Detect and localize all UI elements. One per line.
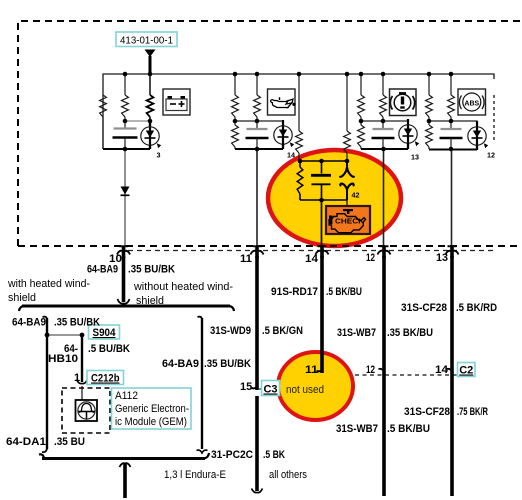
- svg-text:91S-RD17: 91S-RD17: [271, 286, 318, 298]
- svg-text:all others: all others: [269, 469, 307, 481]
- svg-text:with heated wind-: with heated wind-: [7, 278, 90, 290]
- svg-text:.75 BK/R: .75 BK/R: [457, 406, 488, 418]
- svg-text:shield: shield: [136, 295, 164, 307]
- svg-text:31S-CF28: 31S-CF28: [404, 406, 450, 418]
- svg-text:31S-WB7: 31S-WB7: [337, 327, 376, 339]
- svg-text:.5 BK/BU: .5 BK/BU: [326, 286, 362, 298]
- svg-text:1,3 l Endura-E: 1,3 l Endura-E: [164, 469, 226, 481]
- svg-text:ABS: ABS: [464, 101, 479, 108]
- svg-text:A112: A112: [115, 390, 138, 402]
- svg-text:.5 BK/GN: .5 BK/GN: [262, 325, 303, 337]
- svg-text:without heated wind-: without heated wind-: [133, 281, 233, 293]
- svg-text:31S-CF28: 31S-CF28: [401, 302, 447, 314]
- svg-text:64-BA9: 64-BA9: [162, 358, 199, 370]
- svg-text:shield: shield: [8, 292, 36, 304]
- svg-text:.35 BU/BK: .35 BU/BK: [128, 264, 175, 276]
- svg-text:31S-WB7: 31S-WB7: [336, 423, 378, 435]
- svg-text:C212b: C212b: [91, 373, 120, 385]
- svg-text:.5 BK/BU: .5 BK/BU: [387, 423, 430, 435]
- svg-text:12: 12: [366, 252, 375, 264]
- svg-text:14: 14: [305, 253, 319, 265]
- svg-text:14: 14: [287, 151, 295, 160]
- svg-text:14: 14: [435, 364, 449, 376]
- svg-text:.35 BU: .35 BU: [54, 436, 85, 448]
- svg-text:Generic Electron-: Generic Electron-: [115, 403, 189, 415]
- svg-text:.35 BU/BK: .35 BU/BK: [204, 358, 251, 370]
- svg-text:64-BA9: 64-BA9: [12, 317, 46, 329]
- svg-text:12: 12: [366, 364, 375, 376]
- svg-text:ic Module (GEM): ic Module (GEM): [115, 416, 187, 428]
- svg-text:.5 BU/BK: .5 BU/BK: [88, 343, 130, 355]
- svg-text:.5 BK: .5 BK: [263, 449, 285, 461]
- svg-text:12: 12: [487, 151, 495, 160]
- svg-text:not used: not used: [286, 384, 324, 396]
- svg-text:31-PC2C: 31-PC2C: [211, 449, 253, 461]
- svg-text:3: 3: [157, 151, 161, 160]
- svg-text:15: 15: [240, 381, 252, 393]
- svg-text:42: 42: [352, 191, 360, 200]
- svg-text:C3: C3: [263, 384, 277, 396]
- svg-text:11: 11: [305, 364, 318, 376]
- svg-text:HB10: HB10: [48, 353, 78, 365]
- svg-text:13: 13: [436, 252, 448, 264]
- svg-text:13: 13: [411, 153, 419, 162]
- svg-text:.35 BK/BU: .35 BK/BU: [387, 327, 433, 339]
- svg-text:1: 1: [74, 372, 80, 384]
- svg-text:64-BA9: 64-BA9: [87, 264, 118, 276]
- svg-text:.35 BU/BK: .35 BU/BK: [54, 317, 100, 329]
- svg-text:S904: S904: [93, 327, 117, 339]
- svg-text:C2: C2: [459, 365, 473, 377]
- svg-text:11: 11: [240, 253, 252, 265]
- svg-text:64-DA1: 64-DA1: [6, 436, 46, 448]
- svg-text:413-01-00-1: 413-01-00-1: [120, 35, 173, 47]
- svg-text:31S-WD9: 31S-WD9: [210, 325, 251, 337]
- svg-text:CHECK: CHECK: [335, 217, 365, 226]
- svg-text:.5 BK/RD: .5 BK/RD: [456, 302, 497, 314]
